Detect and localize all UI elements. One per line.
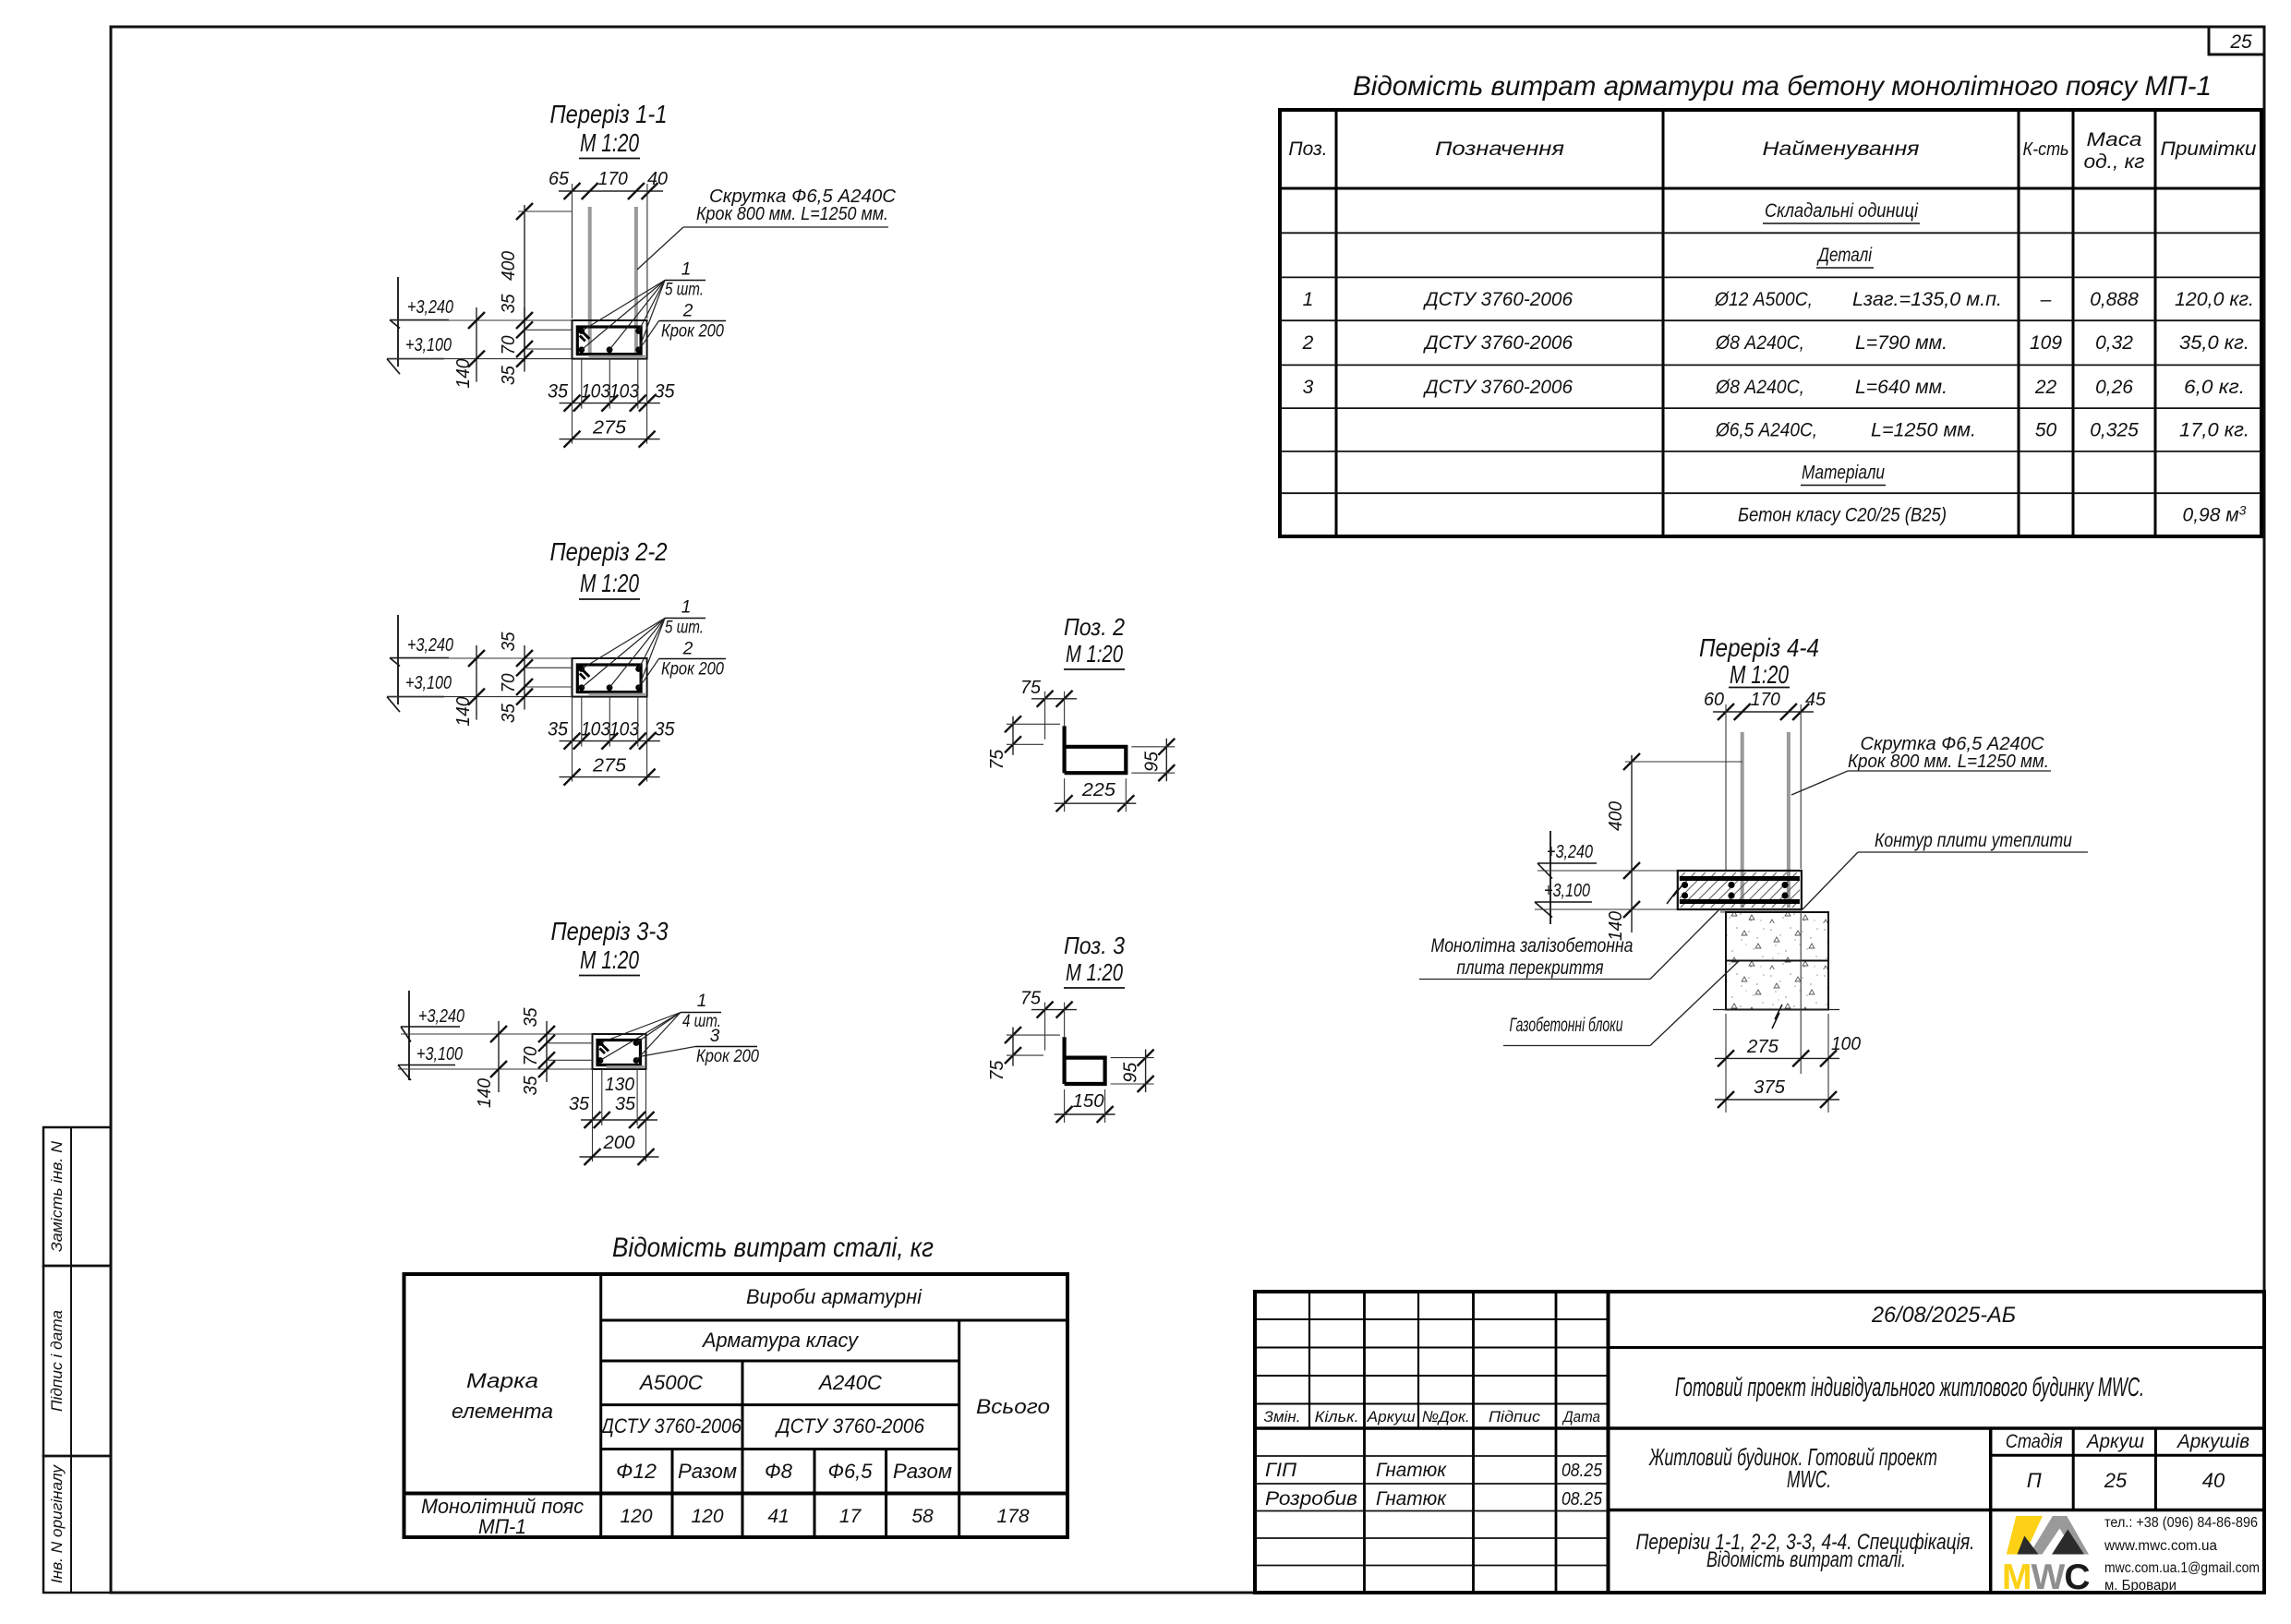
svg-text:2: 2 — [682, 302, 693, 321]
section 3-3: row connector lines — [549, 1042, 593, 1044]
svg-text:178: 178 — [996, 1506, 1029, 1527]
section 1-1: bottom extension lines — [572, 359, 573, 444]
svg-text:0,888: 0,888 — [2090, 289, 2139, 310]
svg-text:5 шт.: 5 шт. — [665, 619, 704, 638]
svg-text:Крок 800 мм. L=1250 мм.: Крок 800 мм. L=1250 мм. — [1848, 752, 2049, 772]
section 4-4: block break mark — [1772, 1004, 1782, 1029]
svg-text:75: 75 — [987, 749, 1007, 770]
left strip: Інв. N оригіналу — [43, 1456, 111, 1593]
svg-text:35,0 кг.: 35,0 кг. — [2179, 332, 2249, 354]
svg-text:L=790 мм.: L=790 мм. — [1855, 332, 1947, 354]
steel table grid — [404, 1274, 1068, 1537]
svg-text:М 1:20: М 1:20 — [1066, 958, 1123, 986]
section 1-1: stirrup hook — [578, 328, 589, 339]
svg-text:Аркуш: Аркуш — [1367, 1408, 1416, 1426]
section 4-4: top extension lines — [1725, 704, 1727, 871]
svg-text:ДСТУ 3760-2006: ДСТУ 3760-2006 — [1423, 332, 1573, 354]
svg-text:Матеріали: Матеріали — [1802, 463, 1885, 484]
section 3-3: overall dim 200 — [580, 1156, 659, 1158]
svg-text:L=640 мм.: L=640 мм. — [1855, 377, 1947, 398]
svg-text:0,325: 0,325 — [2090, 420, 2139, 441]
section 1-1: stirrup — [577, 327, 641, 355]
section 1-1: bottom spacer bar — [589, 355, 645, 358]
svg-text:25: 25 — [2104, 1469, 2128, 1492]
section 4-4: slab concrete hatch — [1650, 872, 1838, 908]
section 1-1: level line top — [390, 319, 573, 321]
section 3-3: stirrup hook — [598, 1041, 609, 1052]
section 4-4: dim 275/100 — [1715, 1057, 1839, 1059]
svg-text:Гнатюк: Гнатюк — [1376, 1488, 1447, 1510]
section 3-3: elevation +3,240 — [408, 991, 410, 1080]
svg-text:35: 35 — [499, 294, 519, 314]
svg-text:Ø6,5 А240С,: Ø6,5 А240С, — [1715, 420, 1817, 441]
svg-text:58: 58 — [911, 1506, 934, 1527]
svg-text:елемента: елемента — [452, 1400, 553, 1423]
section 4-4: monolithic slab outline — [1678, 871, 1802, 909]
svg-text:Інв. N оригіналу: Інв. N оригіналу — [48, 1463, 66, 1583]
svg-text:1: 1 — [1303, 289, 1314, 310]
svg-text:70: 70 — [499, 674, 519, 693]
svg-text:3: 3 — [1303, 377, 1314, 398]
section 1-1: row connector lines — [526, 329, 573, 331]
svg-text:ДСТУ 3760-2006: ДСТУ 3760-2006 — [598, 1414, 742, 1438]
section 3-3: level line bottom — [398, 1068, 593, 1070]
svg-text:Крок 200: Крок 200 — [696, 1047, 759, 1066]
svg-text:ДСТУ 3760-2006: ДСТУ 3760-2006 — [1423, 289, 1573, 310]
left strip: Підпис і дата — [43, 1266, 111, 1456]
section 4-4: level line top — [1537, 870, 1678, 872]
Поз. 3: dim 150 (bottom) — [1055, 1113, 1115, 1115]
svg-text:Відомість витрат сталі.: Відомість витрат сталі. — [1706, 1547, 1906, 1572]
svg-text:Поз. 3: Поз. 3 — [1064, 932, 1125, 959]
svg-text:35: 35 — [499, 632, 519, 652]
svg-text:+3,240: +3,240 — [418, 1006, 464, 1027]
Поз. 3: dim 75 (left) — [1012, 1028, 1014, 1066]
section 4-4: elevation +3,240 — [1549, 831, 1551, 924]
svg-text:275: 275 — [592, 418, 627, 439]
svg-text:17,0 кг.: 17,0 кг. — [2179, 420, 2249, 441]
title block right grid — [1609, 1346, 2265, 1349]
section 3-3: stirrup label 3 Крок 200 — [695, 1046, 757, 1048]
svg-text:+3,100: +3,100 — [405, 673, 452, 693]
section 3-3: concrete outline — [593, 1034, 646, 1069]
svg-text:45: 45 — [1805, 690, 1827, 710]
svg-text:+3,240: +3,240 — [407, 297, 453, 318]
svg-text:Крок 800 мм. L=1250 мм.: Крок 800 мм. L=1250 мм. — [696, 204, 888, 224]
section 4-4: aerated concrete blocks — [1726, 912, 1828, 1010]
svg-text:35: 35 — [548, 719, 568, 740]
section 2-2: stirrup label 2 Крок 200 — [659, 658, 727, 660]
svg-text:65: 65 — [549, 169, 570, 189]
svg-text:м. Бровари: м. Бровари — [2104, 1578, 2176, 1594]
svg-text:А500С: А500С — [638, 1371, 703, 1394]
svg-text:Дата: Дата — [1561, 1408, 1600, 1426]
section 4-4: dim extension lines below — [1725, 1014, 1727, 1113]
svg-text:120: 120 — [620, 1506, 652, 1527]
Поз. 2: dim 225 (bottom) — [1055, 802, 1137, 804]
svg-text:L=1250 мм.: L=1250 мм. — [1871, 420, 1976, 441]
svg-text:275: 275 — [592, 756, 627, 776]
section 1-1: level line bottom — [387, 358, 573, 360]
svg-text:Марка: Марка — [466, 1369, 538, 1392]
svg-text:Замість інв. N: Замість інв. N — [48, 1140, 66, 1252]
svg-text:103: 103 — [581, 381, 610, 403]
section 2-2: dim chain 35/70/35 — [524, 645, 525, 710]
svg-text:35: 35 — [615, 1094, 636, 1114]
svg-text:Позначення: Позначення — [1435, 138, 1564, 160]
section 4-4: skrutka wires — [1741, 732, 1744, 908]
svg-text:400: 400 — [499, 251, 519, 281]
section 1-1: dim chain 35/70/35 — [524, 307, 525, 372]
svg-text:Крок 200: Крок 200 — [661, 322, 724, 342]
section 3-3: position label 1 (4 шт.) — [681, 1012, 721, 1014]
svg-text:Вироби арматурні: Вироби арматурні — [746, 1285, 922, 1308]
section 1-1: bottom dim chain — [560, 403, 660, 404]
section 1-1: overall dim 275 — [560, 439, 660, 440]
svg-text:35: 35 — [655, 719, 675, 740]
svg-text:Разом: Разом — [893, 1460, 952, 1483]
svg-text:Ф8: Ф8 — [765, 1460, 793, 1483]
title block outer — [1255, 1292, 2264, 1593]
svg-text:www.mwc.com.ua: www.mwc.com.ua — [2104, 1538, 2217, 1554]
section 2-2: bottom dim chain — [560, 740, 660, 742]
svg-text:Аркуш: Аркуш — [2085, 1431, 2144, 1452]
svg-text:+3,100: +3,100 — [416, 1044, 463, 1065]
svg-text:М 1:20: М 1:20 — [580, 128, 639, 157]
svg-text:MWC.: MWC. — [1787, 1465, 1831, 1493]
svg-text:40: 40 — [2202, 1469, 2225, 1492]
Поз. 3: dim 95 (right) — [1145, 1050, 1147, 1092]
svg-text:140: 140 — [453, 697, 474, 727]
svg-text:Всього: Всього — [976, 1395, 1050, 1418]
section 2-2: stirrup hook — [578, 666, 589, 677]
section 2-2: concrete outline — [573, 658, 647, 697]
svg-text:95: 95 — [1121, 1062, 1141, 1083]
section 2-2: dim 140 — [476, 645, 477, 720]
title block left grid — [1308, 1292, 1310, 1428]
svg-text:А240С: А240С — [817, 1371, 882, 1394]
svg-text:200: 200 — [602, 1133, 634, 1153]
Поз. 3: bent bar shape — [1065, 1037, 1105, 1084]
svg-text:Найменування: Найменування — [1763, 138, 1920, 160]
svg-text:08.25: 08.25 — [1561, 1460, 1603, 1481]
section 1-1: top extension lines — [572, 184, 573, 319]
svg-text:103: 103 — [609, 719, 639, 740]
svg-text:0,98 м3: 0,98 м3 — [2183, 503, 2247, 526]
section 2-2: position label 1 (5 шт.) — [665, 618, 705, 620]
svg-text:1: 1 — [681, 260, 692, 280]
svg-text:08.25: 08.25 — [1561, 1488, 1603, 1510]
section 4-4: slab rebar dots — [1682, 882, 1688, 888]
section 3-3: bottom dim chain 35/130/35 — [581, 1119, 657, 1121]
svg-text:Контур плити утеплити: Контур плити утеплити — [1875, 830, 2072, 851]
svg-text:35: 35 — [521, 1007, 541, 1028]
section 2-2: longitudinal bars — [578, 666, 585, 672]
svg-text:35: 35 — [499, 365, 519, 385]
section 4-4: dim 375 — [1715, 1099, 1839, 1101]
svg-text:+3,240: +3,240 — [1547, 842, 1593, 862]
section 2-2: overall dim 275 — [560, 776, 660, 778]
svg-text:17: 17 — [839, 1506, 862, 1527]
svg-text:Кільк.: Кільк. — [1315, 1408, 1359, 1426]
section 4-4: ground line — [1713, 1009, 1839, 1011]
svg-text:Відомість витрат арматури та б: Відомість витрат арматури та бетону моно… — [1353, 71, 2212, 102]
svg-text:120: 120 — [691, 1506, 723, 1527]
svg-text:170: 170 — [598, 169, 628, 189]
svg-text:Відомість витрат сталі, кг: Відомість витрат сталі, кг — [612, 1233, 934, 1263]
svg-text:26/08/2025-АБ: 26/08/2025-АБ — [1871, 1303, 2016, 1328]
section 4-4: dim 400 — [1631, 755, 1633, 932]
svg-text:№Док.: №Док. — [1422, 1408, 1470, 1426]
svg-text:К-сть: К-сть — [2023, 139, 2069, 160]
svg-text:ГІП: ГІП — [1265, 1460, 1297, 1481]
svg-text:40: 40 — [647, 169, 668, 189]
svg-text:2: 2 — [1302, 332, 1314, 354]
section 4-4: slab break mark — [1667, 883, 1684, 904]
section 3-3: bottom spacer bar — [607, 1065, 645, 1068]
spec table grid — [1280, 110, 2261, 536]
svg-text:Змін.: Змін. — [1264, 1408, 1301, 1426]
svg-text:150: 150 — [1073, 1091, 1104, 1112]
Поз. 2: dim 75 (left) — [1012, 716, 1014, 755]
section 4-4: spacer bar under slab — [1720, 910, 1801, 913]
svg-text:50: 50 — [2035, 420, 2057, 441]
section 4-4: slab top chord — [1680, 876, 1800, 881]
section 2-2: level line bottom — [387, 696, 573, 698]
svg-text:Готовий проект індивідуального: Готовий проект індивідуального житлового… — [1675, 1373, 2144, 1402]
section 1-1: longitudinal bars — [578, 328, 585, 334]
svg-text:2: 2 — [682, 640, 693, 659]
svg-text:ДСТУ 3760-2006: ДСТУ 3760-2006 — [774, 1414, 925, 1438]
svg-text:130: 130 — [605, 1075, 634, 1095]
section 1-1: position label 1 (5 шт.) — [665, 280, 705, 282]
svg-text:25: 25 — [2229, 31, 2252, 53]
section 1-1: elevation +3,240 — [397, 277, 399, 367]
Поз. 3: dim 75 (top bend) — [1031, 1009, 1077, 1011]
section 2-2: bottom spacer bar — [589, 693, 645, 696]
svg-text:41: 41 — [767, 1506, 789, 1527]
svg-text:ДСТУ 3760-2006: ДСТУ 3760-2006 — [1423, 377, 1573, 398]
section 1-1: top dim 65/170/40 — [559, 190, 663, 192]
svg-text:Крок 200: Крок 200 — [661, 660, 724, 680]
section 1-1: concrete outline — [573, 320, 647, 359]
svg-text:Ø12 А500С,: Ø12 А500С, — [1714, 289, 1813, 310]
svg-text:Підпис і дата: Підпис і дата — [48, 1310, 66, 1412]
section 4-4: dim 140 — [1623, 862, 1640, 879]
svg-text:МП-1: МП-1 — [478, 1515, 526, 1538]
section 2-2: elevation +3,240 — [397, 615, 399, 704]
svg-text:Разом: Разом — [678, 1460, 737, 1483]
section 2-2: level line top — [390, 657, 573, 659]
section 4-4: level line bottom — [1535, 908, 1678, 910]
svg-text:Газобетонні блоки: Газобетонні блоки — [1510, 1015, 1623, 1036]
svg-text:Переріз 2-2: Переріз 2-2 — [550, 537, 668, 566]
section 2-2: row connector lines — [526, 667, 573, 668]
svg-text:0,26: 0,26 — [2095, 377, 2133, 398]
MWC logo mark — [2007, 1516, 2089, 1555]
svg-text:375: 375 — [1754, 1077, 1786, 1098]
svg-text:100: 100 — [1831, 1034, 1861, 1054]
svg-text:22: 22 — [2034, 377, 2057, 398]
svg-text:35: 35 — [569, 1094, 590, 1114]
svg-text:Аркушів: Аркушів — [2176, 1431, 2249, 1452]
section 4-4: top dim 60/170/45 — [1713, 711, 1814, 713]
svg-text:75: 75 — [1020, 678, 1042, 698]
svg-text:М 1:20: М 1:20 — [580, 945, 639, 974]
svg-text:Монолітна залізобетонна: Монолітна залізобетонна — [1431, 935, 1634, 956]
svg-text:П: П — [2027, 1469, 2042, 1492]
svg-text:MWC: MWC — [2002, 1558, 2090, 1597]
svg-text:+3,240: +3,240 — [407, 635, 453, 656]
section 3-3: stirrup — [597, 1041, 641, 1065]
section 4-4: slab bottom chord — [1680, 899, 1800, 904]
svg-text:Бетон класу С20/25 (В25): Бетон класу С20/25 (В25) — [1738, 505, 1947, 526]
svg-text:М 1:20: М 1:20 — [1730, 660, 1789, 689]
svg-text:Lзаг.=135,0 м.п.: Lзаг.=135,0 м.п. — [1852, 289, 2002, 310]
svg-text:35: 35 — [499, 703, 519, 723]
svg-text:275: 275 — [1746, 1037, 1779, 1057]
svg-text:140: 140 — [453, 359, 474, 389]
svg-text:95: 95 — [1141, 751, 1162, 772]
section 2-2: bottom extension lines — [572, 697, 573, 782]
section 1-1: skrutka wires — [588, 207, 592, 355]
svg-text:+3,100: +3,100 — [405, 335, 452, 355]
svg-text:mwc.com.ua.1@gmail.com: mwc.com.ua.1@gmail.com — [2104, 1560, 2260, 1576]
svg-text:Переріз 1-1: Переріз 1-1 — [550, 100, 668, 128]
svg-text:225: 225 — [1081, 780, 1116, 800]
svg-text:Примітки: Примітки — [2161, 138, 2257, 160]
svg-text:35: 35 — [655, 381, 675, 403]
svg-text:1: 1 — [697, 992, 707, 1011]
svg-text:140: 140 — [475, 1078, 495, 1108]
svg-text:60: 60 — [1704, 690, 1724, 710]
svg-text:75: 75 — [987, 1060, 1007, 1081]
section 3-3: longitudinal bars (4 шт.) — [597, 1040, 604, 1046]
svg-text:Стадія: Стадія — [2006, 1431, 2063, 1452]
svg-text:Маса: Маса — [2087, 129, 2142, 150]
svg-text:0,32: 0,32 — [2095, 332, 2133, 354]
svg-text:+3,100: +3,100 — [1544, 881, 1590, 901]
svg-text:Ø8 А240С,: Ø8 А240С, — [1715, 377, 1804, 398]
Поз. 2: dim 95 (right) — [1165, 739, 1167, 781]
svg-text:Поз. 2: Поз. 2 — [1064, 613, 1125, 641]
svg-text:М 1:20: М 1:20 — [580, 569, 639, 597]
svg-text:Підпис: Підпис — [1489, 1408, 1541, 1426]
left strip: Замість інв. N — [43, 1127, 111, 1266]
svg-text:Гнатюк: Гнатюк — [1376, 1460, 1447, 1481]
svg-text:103: 103 — [581, 719, 610, 740]
svg-text:Розробив: Розробив — [1265, 1488, 1357, 1510]
section 3-3: dim chain 35/70/35 — [546, 1021, 548, 1082]
section 1-1: dim 400 — [524, 205, 525, 362]
svg-text:Поз.: Поз. — [1288, 138, 1327, 160]
svg-text:3: 3 — [710, 1027, 720, 1046]
svg-text:103: 103 — [609, 381, 639, 403]
svg-text:од., кг: од., кг — [2084, 151, 2145, 173]
svg-text:Складальні одиниці: Складальні одиниці — [1765, 200, 1919, 222]
svg-text:6,0 кг.: 6,0 кг. — [2184, 377, 2245, 398]
section 1-1: dim 140 — [476, 307, 477, 382]
svg-text:Деталі: Деталі — [1816, 245, 1873, 266]
sheet number box — [2209, 27, 2264, 54]
section 3-3: level line top — [401, 1033, 593, 1035]
svg-text:70: 70 — [499, 336, 519, 355]
svg-text:75: 75 — [1020, 989, 1042, 1009]
section 3-3: bottom extension lines — [592, 1069, 594, 1161]
svg-text:1: 1 — [681, 598, 692, 618]
svg-text:М 1:20: М 1:20 — [1066, 640, 1123, 668]
svg-text:70: 70 — [521, 1047, 541, 1066]
svg-text:Арматура класу: Арматура класу — [701, 1329, 860, 1352]
svg-text:35: 35 — [548, 381, 568, 403]
svg-text:109: 109 — [2030, 332, 2062, 354]
svg-text:Переріз 3-3: Переріз 3-3 — [551, 917, 669, 945]
svg-text:5 шт.: 5 шт. — [665, 281, 704, 300]
svg-text:Ф6,5: Ф6,5 — [828, 1460, 874, 1483]
svg-text:–: – — [2040, 289, 2052, 310]
svg-text:Ф12: Ф12 — [616, 1460, 657, 1483]
svg-text:тел.: +38 (096) 84-86-896: тел.: +38 (096) 84-86-896 — [2104, 1515, 2258, 1531]
svg-text:Переріз 4-4: Переріз 4-4 — [1699, 633, 1819, 662]
svg-text:400: 400 — [1606, 801, 1626, 831]
svg-text:плита перекриття: плита перекриття — [1457, 957, 1604, 979]
svg-text:Ø8 А240С,: Ø8 А240С, — [1715, 332, 1804, 354]
svg-text:35: 35 — [521, 1076, 541, 1096]
Поз. 2: dim 75 (top bend) — [1031, 698, 1077, 700]
section 3-3: dim 140 — [498, 1021, 500, 1092]
svg-text:120,0 кг.: 120,0 кг. — [2175, 289, 2254, 310]
Поз. 2: bent bar shape — [1065, 726, 1127, 773]
section 2-2: stirrup — [577, 665, 641, 692]
section 4-4: block joint line — [1726, 960, 1828, 962]
section 1-1: stirrup label 2 Крок 200 — [659, 320, 727, 322]
svg-text:170: 170 — [1751, 690, 1780, 710]
